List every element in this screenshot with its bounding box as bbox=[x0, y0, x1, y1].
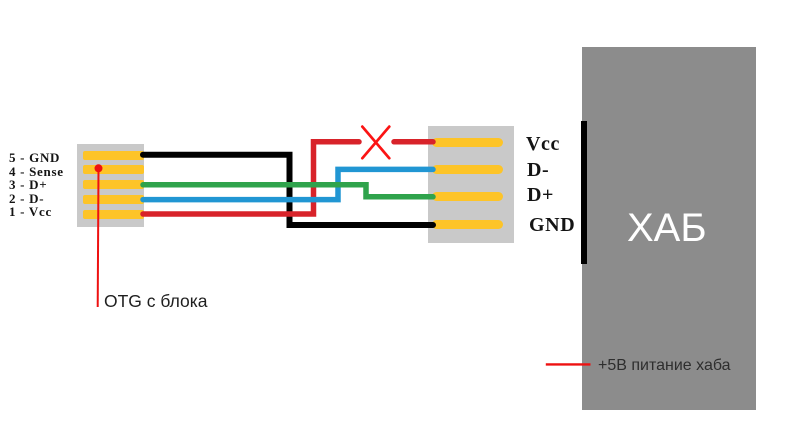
J1 pin 2 (D-) pad bbox=[83, 195, 144, 204]
J1 pin 5 (GND) pad bbox=[83, 151, 144, 160]
callout dot on J1 pin 4 bbox=[95, 164, 103, 172]
J2 pin GND pad bbox=[432, 220, 503, 229]
callout line to +5V label bbox=[546, 363, 591, 365]
connector J1 (OTG plug, 5-pin) body bbox=[77, 144, 144, 227]
J2 pin D- pad bbox=[432, 165, 503, 174]
J1 pin 4 (Sense) pad bbox=[83, 165, 144, 174]
hub title ХАБ bbox=[627, 208, 707, 248]
wire Vcc (red) right stub at J2 bbox=[394, 139, 433, 145]
wire D- (blue): J1 pin2 to J2 D- bbox=[143, 169, 433, 199]
J1 pin 3 (D+) pad bbox=[83, 180, 144, 189]
callout line to OTG label bbox=[97, 168, 100, 307]
connector J2 (hub USB plug, 4-pin) body bbox=[428, 126, 514, 243]
label J1 pin 2 bbox=[9, 192, 44, 205]
label J1 pin 1 bbox=[9, 205, 52, 218]
label J2 D+ bbox=[527, 185, 554, 205]
wire Vcc (red, cut): J1 pin1 toward J2 Vcc, left segment bbox=[143, 142, 359, 214]
label J1 pin 4 bbox=[9, 165, 64, 178]
label J1 pin 3 bbox=[9, 178, 47, 191]
label +5В питание хаба bbox=[598, 358, 731, 374]
label OTG с блока bbox=[104, 293, 208, 311]
hub connector bar bbox=[581, 121, 587, 264]
J2 pin Vcc pad bbox=[432, 138, 503, 147]
J1 pin 1 (Vcc) pad bbox=[83, 210, 144, 219]
wire GND (black): J1 pin5 to J2 GND bbox=[143, 155, 433, 225]
J2 pin D+ pad bbox=[432, 192, 503, 201]
hub block ХАБ bbox=[582, 47, 756, 410]
label J2 D- bbox=[527, 160, 549, 180]
label J2 GND bbox=[529, 215, 575, 235]
X mark (no-connect on red Vcc wire) bbox=[362, 127, 389, 159]
label J2 Vcc bbox=[526, 134, 560, 154]
label J1 pin 5 bbox=[9, 151, 60, 164]
wire D+ (green): J1 pin3 to J2 D+ bbox=[143, 185, 433, 197]
